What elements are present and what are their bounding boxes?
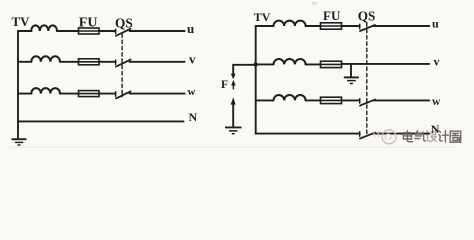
svg-text:QS: QS	[115, 16, 133, 31]
svg-text:F: F	[221, 79, 228, 91]
node w (right)	[432, 96, 441, 108]
winding L1a (TV secondary phase u coil)	[31, 25, 57, 31]
wire row-v right: junction to coil	[256, 63, 274, 65]
wire row-u right: bus to coil	[256, 25, 274, 27]
svg-text:QS: QS	[358, 8, 376, 23]
node bus-right (vertical bus)	[255, 26, 257, 134]
svg-text:u: u	[432, 17, 439, 31]
label QS (left)	[115, 16, 133, 31]
svg-text:FU: FU	[79, 16, 98, 31]
ground (spark gap earth)	[225, 127, 242, 133]
fuse FU5 (right row v)	[321, 61, 342, 67]
svg-text:FU: FU	[323, 8, 341, 23]
svg-text:TV: TV	[254, 10, 271, 24]
scan artifact smudge top	[311, 1, 318, 5]
char 圈	[450, 131, 461, 142]
wire switch to terminal N (right)	[374, 133, 430, 135]
svg-text:N: N	[431, 122, 440, 136]
fuse FU1 (row u)	[79, 28, 100, 34]
node N (left)	[189, 110, 198, 124]
wire coil to fuse row-u	[57, 30, 79, 32]
spark gap F upper electrode (down arrow)	[232, 65, 234, 74]
wire fuse to switch row-w right	[342, 99, 360, 101]
wire fuse to switch row-v	[99, 61, 116, 63]
watermark logo circle	[374, 130, 396, 144]
char 电	[403, 131, 412, 142]
fuse FU2 (row v)	[79, 59, 100, 65]
node v (right)	[434, 55, 440, 69]
svg-text:w: w	[188, 86, 196, 98]
wire switch to terminal u (right)	[374, 25, 430, 27]
wire coil to fuse row-v right	[306, 63, 321, 65]
svg-text:TV: TV	[12, 14, 31, 29]
wire coil to fuse row-w	[60, 93, 79, 95]
wire switch to terminal w (left)	[130, 93, 185, 95]
scan artifact faint line bottom	[10, 146, 458, 149]
label F	[221, 79, 228, 91]
switch QS pole N (right)	[359, 132, 361, 136]
char 气	[415, 131, 426, 141]
node w (left)	[188, 86, 196, 98]
switch QS pole w (right)	[359, 99, 361, 103]
node u (right)	[432, 17, 439, 31]
ground (left diagram earth at bus bottom)	[12, 139, 27, 145]
node v (left)	[189, 52, 196, 67]
switch QS pole u (left)	[115, 29, 117, 33]
wire earth stub on v phase	[350, 64, 352, 77]
wire row-v left: bus to coil	[18, 61, 32, 63]
winding L2a (TV secondary phase u coil)	[274, 21, 306, 26]
wire switch to terminal w (right)	[374, 99, 430, 101]
svg-text:v: v	[189, 52, 196, 67]
char 计	[439, 131, 449, 142]
node u (left)	[187, 21, 194, 36]
wire switch to terminal v (left)	[130, 61, 185, 63]
winding L1c (TV secondary phase w coil)	[31, 88, 60, 94]
svg-text:N: N	[189, 110, 198, 124]
wire row-u left: bus to coil	[18, 30, 32, 32]
winding L2b (TV secondary phase v coil)	[274, 59, 306, 64]
label QS (right)	[358, 8, 376, 23]
char 设	[426, 131, 436, 142]
wire fuse to terminal v (right, no switch pole)	[342, 63, 430, 65]
wire fuse to switch row-u	[99, 30, 116, 32]
fuse FU6 (right row w)	[321, 97, 342, 103]
spark gap F middle electrode (small up arrow)	[231, 80, 236, 86]
switch QS pole u (right)	[359, 24, 361, 28]
fuse FU4 (right row u)	[321, 23, 342, 29]
winding L1b (TV secondary phase v coil)	[31, 56, 60, 62]
wire switch to terminal u (left)	[130, 30, 185, 32]
wire row-N right: bus corner to switch	[256, 133, 360, 135]
label TV (left transformer)	[12, 14, 31, 29]
ground (v phase working earth)	[344, 77, 359, 83]
switch QS pole v (left)	[115, 60, 117, 64]
wire fuse to switch row-u right	[342, 25, 360, 27]
wire row-w right: bus to coil	[256, 99, 274, 101]
node bus-left (vertical bus from phase a to ground)	[17, 31, 19, 138]
svg-text:w: w	[432, 96, 441, 108]
label TV (right transformer)	[254, 10, 271, 24]
label FU (right)	[323, 8, 341, 23]
label FU	[79, 16, 98, 31]
svg-text:v: v	[434, 55, 440, 69]
winding L2c (TV secondary phase w coil)	[274, 95, 306, 100]
wire row-N left: bus to terminal N	[18, 120, 184, 122]
switch linkage dashed (right QS)	[366, 23, 368, 135]
wire coil to fuse row-w right	[306, 99, 321, 101]
node N (right, over watermark)	[431, 122, 440, 136]
svg-text:u: u	[187, 21, 194, 36]
switch linkage dashed (left QS)	[121, 34, 123, 97]
wire row-w left: bus to coil	[18, 93, 32, 95]
wire gap tap: junction to spark gap F	[233, 64, 256, 66]
spark gap F lower electrode (up arrow from earth)	[231, 97, 236, 104]
wire coil to fuse row-u right	[306, 25, 321, 27]
wire fuse to switch row-w	[99, 93, 116, 95]
watermark text 电气设计圈	[403, 131, 460, 143]
fuse FU3 (row w)	[79, 91, 100, 97]
switch QS pole w (left)	[115, 92, 117, 96]
wire coil to fuse row-v	[60, 61, 79, 63]
junction dot (bus / v row / gap tap)	[254, 62, 258, 66]
